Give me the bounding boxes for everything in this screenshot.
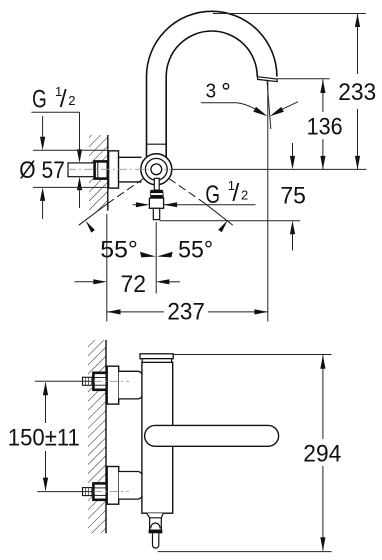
dim 136 line bbox=[322, 80, 324, 170]
dim 75 top shaft bbox=[292, 143, 294, 157]
dim 55 right bottom arrow bbox=[157, 252, 173, 258]
thread dark band bbox=[150, 195, 163, 198]
dim 233 up arrow bbox=[355, 14, 360, 28]
dim diam57 top ext line bbox=[33, 149, 109, 151]
outlet neck trapezoid bbox=[147, 513, 164, 518]
dim 3deg left arc bbox=[237, 103, 256, 110]
wall hatch (bottom figure) bbox=[88, 340, 106, 533]
dim 294 up arrow bbox=[320, 355, 325, 369]
svg-text:/: / bbox=[232, 179, 239, 207]
spout legs bbox=[147, 77, 167, 158]
outlet left arrow bbox=[136, 202, 150, 207]
dim 3deg leader line bbox=[201, 102, 237, 104]
dim diam57 bottom ext line bbox=[33, 186, 109, 188]
dim 294 top ext line bbox=[174, 354, 332, 356]
dim 233/136 bottom ext line bbox=[172, 168, 367, 170]
dim 72 right shaft bbox=[168, 281, 181, 283]
wall surface extension line bbox=[106, 214, 108, 322]
upper cone bbox=[119, 371, 144, 399]
outlet right arrow bbox=[164, 202, 178, 207]
dim 72 left shaft bbox=[75, 281, 96, 283]
wall line (bottom figure) bbox=[105, 340, 107, 534]
dim diam57 bottom shaft bbox=[42, 200, 44, 220]
svg-text:2: 2 bbox=[241, 187, 248, 202]
svg-text:294: 294 bbox=[303, 440, 341, 467]
aerator dome bbox=[151, 523, 161, 529]
lever handle bbox=[145, 425, 279, 446]
dim 237 left arrow bbox=[107, 309, 121, 314]
dim 136 top ext line bbox=[277, 78, 330, 80]
dim 150 upper ext line bbox=[35, 380, 94, 382]
lower inlet stub bbox=[83, 488, 94, 496]
label G1/2 second bbox=[205, 178, 248, 209]
body cap band 2 bbox=[142, 359, 171, 363]
outlet tube bbox=[153, 533, 159, 548]
lower inlet hex bbox=[93, 483, 106, 499]
body cap band 1 bbox=[140, 354, 173, 359]
collar band 1 bbox=[150, 190, 163, 193]
stream 3deg tilted line bbox=[267, 80, 271, 129]
dim 294 bottom ext line bbox=[158, 551, 332, 553]
dim 150 line bbox=[45, 383, 47, 490]
svg-text:G: G bbox=[32, 86, 47, 114]
dim diam57 up arrow bbox=[40, 187, 45, 201]
wall hatch (top figure) bbox=[89, 135, 108, 211]
horizontal center line bbox=[67, 168, 172, 170]
dim 136 down arrow bbox=[320, 156, 325, 170]
svg-text:55°: 55° bbox=[178, 237, 213, 264]
outlet left arrow shaft bbox=[133, 204, 138, 206]
dim 150 lower ext line bbox=[37, 491, 94, 493]
dim 233 down arrow bbox=[355, 156, 360, 170]
stream vertical line / 237 right extension bbox=[267, 80, 269, 322]
spout arc bbox=[147, 11, 277, 76]
dim 237 right arrow bbox=[254, 309, 268, 314]
svg-text:233: 233 bbox=[338, 79, 376, 106]
dim 294 line bbox=[322, 355, 324, 550]
swivel left arrowhead bbox=[86, 221, 95, 233]
outlet body bbox=[149, 198, 163, 208]
dim 72 right arrow bbox=[156, 279, 170, 284]
outlet vertical center line bbox=[155, 222, 157, 294]
svg-text:75: 75 bbox=[280, 183, 306, 210]
dim 75 up arrow bbox=[290, 221, 295, 235]
escutcheon flange bbox=[109, 151, 119, 188]
svg-text:2: 2 bbox=[68, 93, 75, 108]
wall union stub pipe bbox=[68, 163, 95, 177]
dim 233 top ext line bbox=[213, 13, 366, 15]
dim 3deg right arrow bbox=[270, 107, 284, 116]
diverter rod bbox=[154, 178, 159, 190]
svg-text:3: 3 bbox=[206, 81, 217, 103]
lower cone bbox=[119, 472, 144, 500]
spout joint line bbox=[147, 143, 167, 145]
dim 72 left arrow bbox=[93, 279, 107, 284]
dim 150 up arrow bbox=[43, 382, 48, 396]
dim 237 line bbox=[107, 311, 268, 313]
aerator tip bbox=[257, 77, 277, 82]
collar white band bbox=[150, 193, 163, 196]
upper inlet stub bbox=[83, 377, 94, 385]
dim 55 left bottom arrow bbox=[140, 252, 156, 258]
wall line (top figure) bbox=[107, 135, 109, 211]
dim 3deg left arrow bbox=[253, 107, 267, 116]
dim G1/2 leader shaft lower bbox=[79, 189, 81, 208]
svg-text:136: 136 bbox=[307, 114, 343, 141]
dim 150 down arrow bbox=[43, 478, 48, 492]
valve middle circle bbox=[145, 158, 167, 180]
connecting cone pipe bbox=[119, 157, 142, 182]
body cylinder bbox=[142, 362, 173, 513]
dim 75 bottom shaft bbox=[292, 233, 294, 251]
svg-text:Ø 57: Ø 57 bbox=[19, 157, 65, 184]
dim G1/2 leader shaft upper bbox=[79, 112, 81, 151]
dim G1/2 up arrow bbox=[77, 177, 82, 191]
dim 75 bottom ext line bbox=[160, 220, 300, 222]
dim G1/2 top-left underline bbox=[31, 111, 79, 113]
dim 75 down arrow bbox=[290, 156, 295, 170]
valve outer circle bbox=[141, 154, 172, 185]
dim G1/2 top-left label bbox=[32, 84, 75, 114]
dim 3deg right arc bbox=[282, 102, 298, 110]
dim diam57 top shaft bbox=[42, 116, 44, 138]
dim G1/2 down arrow bbox=[77, 149, 82, 163]
svg-text:/: / bbox=[60, 85, 67, 113]
swivel range dashed line right bbox=[169, 179, 233, 226]
svg-text:237: 237 bbox=[167, 298, 205, 325]
dim 233 line bbox=[357, 14, 359, 170]
union hex bbox=[95, 161, 108, 178]
upper inlet hex bbox=[93, 373, 106, 390]
lower flange bbox=[107, 467, 119, 505]
outlet cylinder bbox=[150, 518, 162, 531]
svg-text:55°: 55° bbox=[100, 237, 138, 264]
label G1/2 underline / right arrow shaft bbox=[164, 204, 256, 206]
dim 136 up arrow bbox=[320, 80, 325, 94]
svg-text:72: 72 bbox=[121, 271, 147, 298]
valve inner circle bbox=[151, 164, 162, 175]
swivel right arrowhead bbox=[218, 220, 227, 232]
svg-text:150±11: 150±11 bbox=[8, 425, 80, 452]
outlet stem bbox=[153, 208, 159, 219]
swivel range dashed line left bbox=[79, 179, 144, 226]
aerator ring bbox=[149, 530, 163, 534]
dim 294 down arrow bbox=[320, 537, 325, 551]
dim diam57 down arrow bbox=[40, 137, 45, 151]
upper flange bbox=[107, 366, 119, 404]
